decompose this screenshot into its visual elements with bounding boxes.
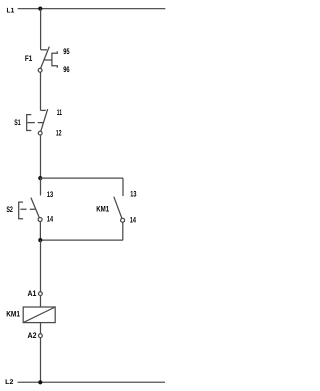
svg-text:KM1: KM1 xyxy=(6,310,20,319)
svg-text:13: 13 xyxy=(47,190,54,199)
wire A1 to coil xyxy=(40,296,42,308)
svg-text:14: 14 xyxy=(47,214,54,223)
junction on L2 bus xyxy=(38,380,42,384)
wire branch top rail to KM1 pin 13 xyxy=(122,178,124,196)
svg-text:12: 12 xyxy=(56,129,62,138)
wire L1 bus xyxy=(18,8,166,10)
svg-text:13: 13 xyxy=(130,190,137,199)
wire coil to A2 xyxy=(40,323,42,334)
wire S1 pin 12 to branch node xyxy=(40,135,42,178)
pushbutton S2 (NO, start) xyxy=(19,198,42,222)
wire S2 pin 14 to branch bottom xyxy=(39,222,41,241)
wire branch top rail xyxy=(40,177,123,179)
junction on L1 bus xyxy=(38,7,42,11)
pushbutton S1 (NC, stop) xyxy=(27,109,48,135)
wire A2 to L2 bus xyxy=(40,338,42,383)
svg-text:S1: S1 xyxy=(14,118,21,127)
overload relay contact F1 (NC, thermal) xyxy=(38,47,57,73)
terminal A2 xyxy=(39,334,43,338)
svg-text:KM1: KM1 xyxy=(96,205,109,214)
wire branch bottom rail xyxy=(40,239,123,241)
svg-text:A2: A2 xyxy=(28,331,38,340)
wire branch bottom to coil A1 xyxy=(40,240,42,292)
wire branch node to S2 pin 13 xyxy=(40,178,42,195)
svg-text:96: 96 xyxy=(63,65,70,74)
svg-text:14: 14 xyxy=(130,216,137,225)
contactor coil KM1 xyxy=(23,307,55,323)
wire L2 bus xyxy=(18,381,166,383)
junction branch bottom xyxy=(38,238,42,242)
svg-text:L2: L2 xyxy=(5,379,13,386)
svg-text:A1: A1 xyxy=(28,289,37,298)
junction branch top xyxy=(38,176,42,180)
svg-text:11: 11 xyxy=(57,108,63,117)
terminal A1 xyxy=(39,292,43,296)
svg-text:95: 95 xyxy=(63,47,70,56)
svg-text:F1: F1 xyxy=(25,54,33,63)
wire L1 bus to F1 pin 95 xyxy=(40,9,42,50)
svg-text:S2: S2 xyxy=(6,205,13,214)
svg-text:L1: L1 xyxy=(7,7,15,14)
wire KM1 pin 14 to branch bottom rail xyxy=(122,222,124,240)
auxiliary contact KM1 (NO, holding) xyxy=(114,197,125,223)
wire F1 pin 96 to S1 pin 11 xyxy=(40,72,42,110)
